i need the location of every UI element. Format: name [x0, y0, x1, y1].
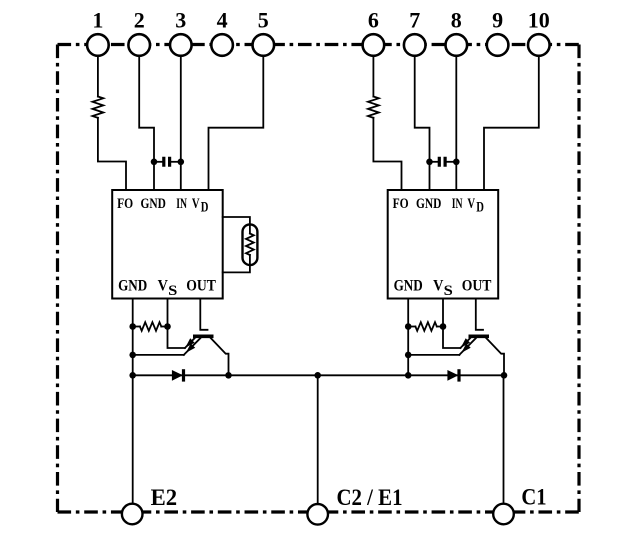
svg-text:4: 4 [217, 8, 228, 33]
svg-text:1: 1 [92, 8, 103, 33]
svg-text:3: 3 [175, 8, 186, 33]
svg-text:FO: FO [117, 196, 133, 212]
diode D2 (rail) [447, 370, 458, 381]
pin 9 terminal [487, 34, 509, 56]
resistor R2 (gate-emitter) [133, 326, 140, 328]
junction: R4 left end [405, 323, 412, 330]
wire: OUT to gate of Q1 [200, 299, 207, 330]
junction: R2 left end [129, 323, 136, 330]
driver block U1 [112, 190, 223, 299]
wire: emitter 2 to GND line [133, 354, 184, 356]
wire: pin 5 to VD [209, 56, 264, 190]
terminal E2 [122, 504, 143, 525]
pin 3 terminal [170, 34, 192, 56]
pin 5 terminal [252, 34, 274, 56]
svg-text:GND: GND [118, 277, 147, 294]
junction: GND line on rail [405, 372, 412, 379]
svg-text:IN: IN [452, 196, 463, 212]
terminal C1 [493, 504, 514, 525]
svg-text:GND: GND [394, 277, 423, 294]
pin 2 terminal [128, 34, 150, 56]
wire: bottom rail (E2 / C2E1 / C1 bus) [133, 374, 504, 376]
svg-text:FO: FO [393, 196, 409, 212]
svg-text:V: V [192, 196, 200, 212]
junction: capacitor C1 right tap [178, 159, 185, 166]
wire: pin 7 to GND top [415, 56, 430, 190]
junction: capacitor C1 left tap [151, 159, 158, 166]
wire: E2 lead [132, 375, 134, 503]
svg-text:IN: IN [176, 196, 187, 212]
diode D1 (rail) [172, 370, 183, 381]
pin 1 terminal [87, 34, 109, 56]
svg-text:V: V [158, 277, 168, 294]
svg-text:C1: C1 [521, 485, 546, 511]
svg-text:E2: E2 [151, 485, 178, 511]
svg-text:9: 9 [492, 8, 503, 33]
svg-text:V: V [467, 196, 475, 212]
transistor Q1 (output device) [184, 336, 229, 375]
svg-text:D: D [201, 200, 209, 216]
junction: rail to C2/E1 lead [314, 372, 321, 379]
svg-text:2: 2 [134, 8, 145, 33]
svg-text:V: V [433, 277, 443, 294]
junction: capacitor C2 right tap [453, 159, 460, 166]
svg-text:OUT: OUT [186, 277, 216, 294]
capsule component (feedback element of U1) [223, 217, 258, 272]
transistor Q2 (output device) [459, 336, 504, 375]
junction: emitter 2 on GND line [405, 352, 412, 359]
svg-text:7: 7 [409, 8, 420, 33]
junction: capacitor C2 left tap [426, 159, 433, 166]
wire: resistor R1 to FO input [98, 118, 126, 190]
wire: pin 1 to resistor R1 [97, 56, 99, 97]
pin 10 terminal [528, 34, 550, 56]
svg-text:OUT: OUT [462, 277, 492, 294]
wire: C2/E1 lead [317, 375, 319, 504]
junction: collector of Q2 on rail [501, 372, 508, 379]
wire: pin 8 to IN [455, 56, 457, 190]
wire: GND bottom of U2 down to rail [407, 299, 409, 376]
wire: GND bottom of U1 down to rail [132, 299, 134, 376]
wire: pin 10 to VD [484, 56, 539, 190]
wire: VS down to emitter 1 [443, 299, 460, 349]
wire: pin 2 to GND top [139, 56, 154, 190]
wire: pin 3 to IN [180, 56, 182, 190]
pin 7 terminal [404, 34, 426, 56]
svg-text:D: D [476, 200, 484, 216]
wire: emitter 2 to GND line [408, 354, 459, 356]
svg-text:GND: GND [416, 196, 441, 212]
resistor R3 (pin 6 series) [368, 97, 379, 118]
junction: collector of Q1 on rail [225, 372, 232, 379]
capacitor C1 (between pins 2 and 3) [154, 161, 162, 163]
pin 8 terminal [446, 34, 468, 56]
junction: emitter 2 on GND line [129, 352, 136, 359]
junction: R2 right end [164, 323, 171, 330]
wire: C1 lead [503, 375, 505, 503]
wire: pin 6 to resistor R3 [372, 56, 374, 97]
svg-text:S: S [444, 283, 453, 299]
module outline (dash-dot border) [58, 45, 580, 513]
svg-text:5: 5 [258, 8, 269, 33]
resistor R4 (gate-emitter) [408, 326, 415, 328]
resistor R1 (pin 1 series) [93, 97, 104, 118]
svg-text:S: S [168, 283, 177, 299]
svg-text:GND: GND [141, 196, 166, 212]
svg-text:C2 / E1: C2 / E1 [337, 485, 403, 511]
capacitor C2 (between pins 7 and 8) [430, 161, 438, 163]
svg-text:6: 6 [368, 8, 379, 33]
wire: VS down to emitter 1 [168, 299, 185, 349]
svg-text:10: 10 [528, 8, 550, 33]
wire: OUT to gate of Q2 [476, 299, 483, 330]
svg-text:8: 8 [451, 8, 462, 33]
pin 4 terminal [211, 34, 233, 56]
driver block U2 [388, 190, 499, 299]
terminal C2/E1 [307, 504, 328, 525]
junction: R4 right end [440, 323, 447, 330]
pin 6 terminal [363, 34, 385, 56]
wire: resistor R3 to FO input [373, 118, 401, 190]
junction: GND line on rail [129, 372, 136, 379]
